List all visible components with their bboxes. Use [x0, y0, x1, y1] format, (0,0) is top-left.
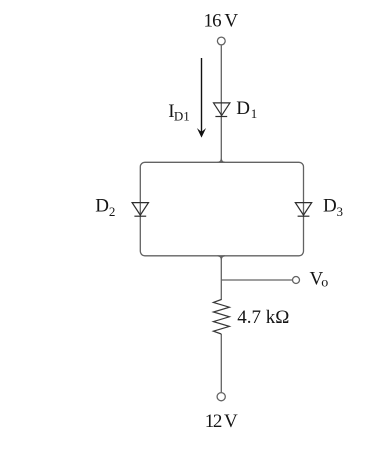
- svg-text:D: D: [323, 196, 337, 217]
- svg-text:3: 3: [337, 204, 344, 219]
- svg-text:o: o: [321, 275, 328, 290]
- svg-text:1: 1: [251, 106, 258, 121]
- svg-text:4.7 kΩ: 4.7 kΩ: [237, 307, 289, 328]
- svg-text:D: D: [95, 196, 109, 217]
- svg-text:2: 2: [109, 204, 116, 219]
- svg-text:12 V: 12 V: [205, 411, 238, 432]
- svg-text:D: D: [236, 98, 250, 119]
- svg-text:D1: D1: [174, 108, 190, 123]
- svg-text:16 V: 16 V: [204, 11, 239, 32]
